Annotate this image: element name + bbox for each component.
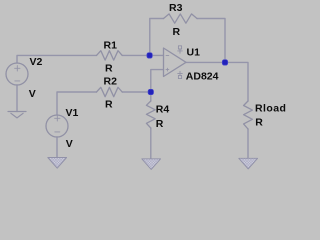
resistor R4	[146, 101, 155, 128]
svg-text:Rload: Rload	[255, 103, 286, 115]
wire V2 bottom to ground	[16, 85, 18, 112]
svg-text:R: R	[173, 26, 181, 38]
svg-text:V: V	[66, 138, 73, 150]
wire R1 right lead to node A	[122, 54, 163, 56]
resistor R3	[164, 14, 198, 23]
op-amp U1	[164, 48, 187, 77]
output node junction dot	[222, 60, 227, 65]
node B junction dot	[148, 89, 153, 94]
svg-text:AD824: AD824	[186, 71, 219, 83]
ground under Rload	[239, 158, 258, 169]
op-amp U1 V- power pin	[178, 71, 183, 78]
voltage source V2	[6, 63, 28, 85]
wire V2 top to R1	[17, 55, 97, 63]
svg-text:V: V	[29, 88, 36, 100]
resistor R1	[97, 51, 123, 60]
op-amp U1 V+ power pin	[178, 46, 183, 53]
node A junction dot	[147, 53, 152, 58]
resistor Rload	[244, 101, 253, 129]
ground under V2	[8, 112, 26, 118]
wire op-amp output to Rload	[186, 62, 248, 101]
svg-text:V2: V2	[30, 56, 43, 68]
wire R3 feedback loop	[150, 19, 164, 56]
svg-text:R: R	[105, 62, 113, 74]
svg-text:R: R	[156, 118, 164, 130]
wire node B up to op-amp plus input	[151, 70, 164, 92]
svg-text:R: R	[255, 116, 263, 128]
wire V1 bottom to ground	[56, 137, 58, 158]
ground under V1	[48, 158, 67, 169]
wire R2 right lead to node B	[122, 91, 151, 93]
voltage source V1	[46, 115, 68, 137]
resistor R2	[97, 87, 123, 96]
svg-text:R4: R4	[156, 104, 170, 116]
svg-text:V1: V1	[66, 107, 79, 119]
svg-text:R2: R2	[104, 76, 118, 88]
wire R4 bottom to ground	[150, 128, 152, 159]
svg-text:R3: R3	[169, 2, 183, 14]
svg-text:R: R	[105, 99, 113, 111]
wire node B down to R4	[150, 92, 152, 101]
svg-text:U1: U1	[187, 46, 201, 58]
svg-text:R1: R1	[104, 40, 118, 52]
ground under R4	[142, 159, 161, 170]
wire R3 right lead down to output node	[197, 19, 225, 63]
wire V1 top to R2	[57, 92, 97, 115]
wire Rload bottom to ground	[247, 129, 249, 158]
